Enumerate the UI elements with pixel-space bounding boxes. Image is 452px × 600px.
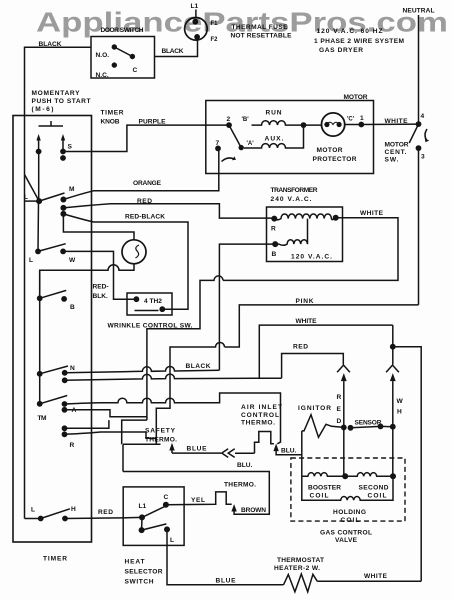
terminal R dots (62, 425, 68, 431)
svg-text:THERMOSTAT: THERMOSTAT (277, 557, 324, 564)
sensor element (351, 426, 381, 427)
heat selector lower dot (139, 527, 145, 533)
contact H arm (41, 509, 70, 519)
wire timer motor feed from M3 (63, 214, 134, 240)
terminal N dots (62, 370, 68, 376)
svg-text:BLU.: BLU. (237, 462, 253, 469)
transformer secondary tap (307, 219, 309, 245)
svg-text:SECOND: SECOND (359, 485, 389, 492)
svg-text:(M-6): (M-6) (32, 106, 54, 113)
svg-text:L: L (31, 507, 35, 514)
svg-text:SW.: SW. (385, 157, 399, 164)
svg-text:AUX.: AUX. (265, 136, 284, 143)
door switch N.O. terminal (112, 44, 117, 49)
wire WHITE tap up to motor circuit (259, 325, 393, 378)
motor centrifugal switch arc (425, 129, 427, 141)
thermal fuse terminal F2 (194, 34, 200, 40)
wire BLACK transformer B to timer N (219, 244, 275, 370)
contact M common dot (36, 198, 42, 204)
svg-text:C: C (133, 67, 138, 74)
svg-text:TM: TM (38, 415, 48, 422)
svg-text:4 TH2: 4 TH2 (144, 298, 162, 305)
svg-text:W: W (69, 257, 76, 264)
svg-text:H: H (71, 506, 76, 513)
plug arrow BROWN (231, 504, 236, 511)
wire W terminal to wrinkle switch terminal 4 (63, 251, 136, 299)
svg-text:CONTROL: CONTROL (241, 412, 279, 419)
wrinkle blade (135, 310, 159, 312)
svg-text:2: 2 (227, 116, 231, 123)
timer chain wire B to TM (39, 271, 41, 404)
svg-text:B: B (70, 304, 75, 311)
wire A lower to safety drop (65, 410, 147, 417)
svg-text:RED-: RED- (93, 284, 109, 291)
svg-text:BLUE: BLUE (187, 446, 208, 453)
motor centrifugal switch arm (409, 124, 418, 143)
wire protector to terminal 1 (345, 124, 362, 126)
wire RED M2 to transformer R (63, 204, 274, 218)
heat selector L1 dot (139, 514, 145, 520)
svg-text:WHITE: WHITE (364, 573, 388, 580)
contact W arm (38, 244, 66, 252)
svg-text:AIR INLET: AIR INLET (241, 404, 282, 411)
wire timer motor return to B common (40, 264, 134, 299)
contact S left arrow (38, 140, 40, 152)
wire neutral 3 down to pink corner (418, 148, 420, 305)
svg-text:H: H (397, 409, 402, 416)
svg-text:RED: RED (98, 509, 113, 516)
thermal fuse terminal F1 (192, 19, 198, 25)
svg-text:R: R (337, 394, 342, 401)
terminal H dot (62, 516, 68, 522)
terminal A dots (62, 401, 68, 407)
transformer primary winding (274, 214, 335, 220)
svg-text:E: E (337, 406, 342, 413)
timer chain wire S to W (38, 152, 40, 202)
contact TM common dot (37, 401, 43, 407)
booster coil (302, 473, 345, 477)
wrinkle control switch box (127, 293, 172, 315)
gas control valve dashed box (291, 458, 405, 521)
timer box (13, 116, 92, 543)
door switch DS1 box (91, 37, 155, 79)
transformer right terminal dot (333, 215, 339, 221)
svg-text:WHITE: WHITE (296, 318, 318, 325)
wire junction to protector (304, 124, 322, 126)
transformer box (267, 207, 343, 262)
door switch N.C. terminal (112, 62, 117, 67)
svg-text:W: W (397, 398, 404, 405)
wire N lower to white and red feed (65, 374, 282, 380)
svg-text:HOLDING: HOLDING (333, 509, 366, 516)
svg-text:SENSOR: SENSOR (355, 420, 382, 427)
wire bus to H common (25, 518, 41, 520)
wire BLACK from C to thermal fuse (155, 41, 198, 57)
wire WH column down to second coil junction (392, 427, 394, 477)
svg-text:THERMO.: THERMO. (224, 481, 256, 488)
wire WHITE down to W-H junction (392, 325, 394, 347)
svg-text:C: C (164, 494, 169, 501)
thermal fuse F circle (185, 18, 208, 41)
heat selector arm L1 to C (142, 507, 165, 518)
timer motor symbol squiggle (136, 245, 140, 258)
svg-text:BLACK: BLACK (39, 41, 62, 48)
svg-text:D: D (337, 418, 342, 425)
safety thermo base (123, 443, 161, 445)
motor switch arm from 2 (229, 125, 241, 148)
motor terminal 7 dot (215, 146, 221, 152)
svg-text:ORANGE: ORANGE (133, 180, 162, 187)
motor protector circle (322, 113, 345, 136)
svg-text:N.O.: N.O. (96, 52, 110, 59)
svg-text:'A': 'A' (247, 141, 255, 147)
svg-text:PURPLE: PURPLE (139, 119, 167, 126)
wire junction to right bus (393, 347, 421, 582)
ignitor lead (301, 431, 303, 476)
plug socket WH (386, 365, 399, 372)
motor terminal 1 dot (358, 122, 364, 128)
svg-text:COIL: COIL (310, 493, 329, 500)
svg-text:TIMER: TIMER (101, 110, 124, 117)
node WH sensor dot (390, 424, 396, 430)
svg-text:L1: L1 (139, 503, 147, 510)
svg-text:COIL: COIL (341, 517, 360, 524)
ignitor element (302, 415, 344, 438)
svg-text:COIL: COIL (368, 493, 387, 500)
svg-text:4: 4 (421, 113, 425, 120)
wrinkle terminal 4 dot (134, 296, 140, 302)
svg-text:KNOB: KNOB (101, 119, 120, 126)
plug arrow WH (390, 373, 396, 381)
svg-text:AppliancePartsPros.com: AppliancePartsPros.com (36, 7, 448, 38)
svg-text:TIMER: TIMER (43, 556, 67, 563)
svg-text:MOMENTARY: MOMENTARY (32, 90, 81, 97)
wire ORANGE M1 to motor 7 (63, 148, 218, 199)
svg-text:BOOSTER: BOOSTER (308, 485, 341, 492)
heat selector arm lower (142, 524, 167, 530)
svg-text:BLACK: BLACK (162, 48, 184, 55)
wire WHITE transformer to left loop (223, 218, 398, 281)
motor RUN winding (252, 121, 304, 125)
second coil (345, 473, 393, 477)
svg-text:SAFETY: SAFETY (145, 427, 176, 434)
wire safety drop jog (122, 420, 147, 444)
svg-text:BLK.: BLK. (93, 293, 109, 300)
svg-text:BLUE: BLUE (216, 578, 237, 585)
contact N common dot (37, 371, 43, 377)
svg-text:RED-BLACK: RED-BLACK (125, 213, 165, 220)
terminal W dot (60, 249, 66, 255)
svg-text:BLU.: BLU. (281, 448, 297, 455)
svg-text:SWITCH: SWITCH (125, 579, 154, 586)
motor box (206, 101, 374, 174)
svg-text:RED: RED (293, 344, 308, 351)
motor terminal 2 dot (226, 122, 232, 128)
node second junction dot (390, 473, 396, 479)
hop over black vertical (147, 276, 223, 420)
svg-text:HEAT: HEAT (125, 559, 145, 566)
disconnect chevrons BLU (222, 449, 229, 458)
wire RED timer H to heat selector L1 (65, 517, 142, 518)
wire YEL C to thermo (166, 492, 232, 505)
contact TM arm (40, 396, 67, 404)
svg-text:'B': 'B' (242, 117, 250, 123)
heat selector L dot (164, 526, 170, 532)
svg-text:SELECTOR: SELECTOR (125, 569, 163, 576)
contact M arm (39, 193, 64, 201)
wire BLACK from door switch N.O. to timer bus (25, 47, 92, 115)
svg-text:MOTOR: MOTOR (344, 94, 368, 101)
svg-text:R: R (70, 442, 75, 449)
svg-text:THERMO.: THERMO. (145, 436, 177, 443)
svg-text:MOTOR: MOTOR (317, 147, 343, 154)
wire RED plug down to ignitor junction (343, 381, 345, 427)
wire R upper jog (65, 420, 109, 428)
svg-text:S: S (68, 144, 73, 151)
timer motor circle (122, 240, 146, 264)
wire RED feed to ignitor plug (282, 354, 344, 379)
svg-text:CENT.: CENT. (385, 149, 407, 156)
motor centrifugal arc arrow (222, 158, 235, 162)
svg-text:GAS CONTROL: GAS CONTROL (320, 530, 372, 537)
sensor left dot (348, 425, 354, 431)
svg-text:1: 1 (360, 115, 364, 122)
svg-text:VALVE: VALVE (335, 537, 358, 544)
contact B arm (40, 290, 66, 298)
motor protector contacts (324, 122, 329, 127)
wire WHITE motor to junction 4 (361, 123, 418, 125)
contact S right dots (60, 149, 66, 155)
node L1 lead (195, 10, 197, 19)
wire R lower to safety thermo bump (65, 432, 157, 444)
thermostat heater element (284, 574, 318, 592)
svg-text:L: L (170, 537, 174, 544)
svg-text:BLACK: BLACK (186, 363, 211, 370)
svg-text:120 V.A.C.: 120 V.A.C. (291, 254, 332, 261)
wire WH plug down to sensor junction (392, 381, 394, 427)
wire bus tap to M common (25, 175, 40, 202)
plug socket RED (337, 365, 350, 372)
wire BLUE safety to disconnect (172, 452, 221, 454)
svg-text:M: M (69, 186, 75, 193)
svg-text:PROTECTOR: PROTECTOR (313, 156, 357, 163)
heat selector C dot (163, 502, 169, 508)
push-to-start button bar T (39, 125, 64, 127)
contact H common dot (38, 516, 44, 522)
svg-text:PINK: PINK (296, 298, 314, 305)
wire RED column to booster junction (343, 427, 345, 476)
svg-text:240 V.A.C.: 240 V.A.C. (271, 196, 312, 203)
svg-text:R: R (271, 226, 276, 233)
wrinkle terminal TH2 dot (159, 306, 165, 312)
motor AUX winding (244, 125, 304, 148)
plug arrow BLU right (273, 444, 278, 452)
svg-text:7: 7 (216, 140, 220, 147)
transformer B terminal dot (272, 241, 278, 247)
svg-text:RED: RED (137, 198, 152, 205)
svg-text:'C': 'C' (347, 117, 355, 123)
plug arrow safety (169, 443, 174, 451)
wire A upper to air inlet plug (65, 393, 281, 444)
svg-text:WHITE: WHITE (385, 118, 409, 125)
holding coil loop (302, 476, 393, 500)
svg-text:HEATER-2 W.: HEATER-2 W. (274, 565, 320, 572)
transformer secondary winding (275, 240, 307, 246)
wire BLUE heat selector to heater (167, 529, 284, 584)
contact N arm (40, 366, 68, 374)
door switch C terminal (130, 54, 135, 59)
svg-text:YEL: YEL (191, 497, 205, 504)
svg-text:1 PHASE 2 WIRE SYSTEM: 1 PHASE 2 WIRE SYSTEM (314, 38, 405, 45)
wire NEUTRAL down to junction 4 (418, 15, 420, 124)
plug arrow RED (341, 373, 347, 381)
sensor right dot (378, 424, 384, 430)
wire RED-BLACK M3 to wrinkle switch (63, 214, 188, 309)
heat selector switch box (123, 487, 184, 546)
svg-text:N.C.: N.C. (96, 72, 109, 79)
node motor junction (301, 122, 307, 128)
contact S right arrow (62, 140, 64, 152)
node ignitor junction dot (341, 425, 347, 431)
node terminal 3 (416, 145, 422, 151)
door switch arm N.O. to C (114, 47, 132, 57)
wire sensor to WH column (381, 425, 393, 427)
wire PURPLE from S to motor terminal 2 (63, 125, 229, 151)
svg-text:F2: F2 (211, 37, 219, 43)
svg-text:WHITE: WHITE (360, 210, 384, 217)
svg-text:MOTOR: MOTOR (385, 142, 409, 149)
transformer R terminal dot (271, 216, 277, 222)
svg-text:N: N (70, 365, 75, 372)
safety thermo left lead (122, 444, 124, 471)
contact B common dot (37, 295, 43, 301)
svg-text:BROWN: BROWN (241, 507, 266, 514)
svg-text:RUN: RUN (266, 110, 282, 117)
wire disconnect to air inlet thermo (235, 452, 255, 454)
contact S left dot (36, 149, 42, 155)
node junction 4 (416, 121, 422, 127)
wire WHITE heater to right bus (317, 580, 421, 582)
timer line bus L (24, 116, 26, 519)
svg-text:TRANSFORMER: TRANSFORMER (271, 187, 318, 194)
wire PINK neutral to pink drop (225, 305, 419, 347)
air inlet control thermo symbol (255, 432, 274, 454)
svg-text:THERMO.: THERMO. (241, 420, 275, 427)
terminal M dots (60, 197, 66, 203)
terminal B dot (61, 296, 67, 302)
svg-text:IGNITOR: IGNITOR (298, 405, 331, 412)
svg-text:GAS DRYER: GAS DRYER (319, 47, 363, 54)
svg-text:B: B (272, 251, 277, 258)
node booster junction dot (342, 473, 348, 479)
svg-text:PUSH TO START: PUSH TO START (32, 98, 91, 105)
contact W common dot (35, 249, 41, 255)
node W-H junction (390, 344, 396, 350)
svg-text:L: L (24, 194, 28, 201)
wire N upper to transformer black (65, 367, 220, 373)
svg-text:L: L (29, 257, 33, 264)
svg-text:3: 3 (421, 154, 425, 161)
